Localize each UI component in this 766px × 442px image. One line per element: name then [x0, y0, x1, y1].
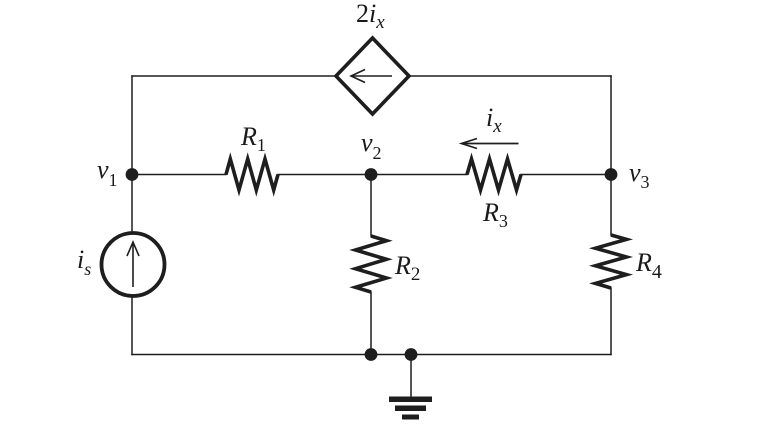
node junction at ground — [405, 348, 418, 361]
svg-text:v1: v1 — [97, 155, 118, 190]
node v2 — [365, 168, 378, 181]
svg-text:is: is — [77, 245, 91, 279]
svg-text:2ix: 2ix — [356, 0, 385, 33]
wire middle R1 to R3 — [278, 174, 467, 176]
resistor R4 — [596, 235, 627, 288]
wire top-left segment — [132, 75, 336, 77]
svg-text:R4: R4 — [635, 248, 662, 283]
wire ground stub — [410, 355, 412, 397]
wire middle R3 to v3 — [521, 174, 611, 176]
wire left upper (v1 to top) — [131, 76, 133, 232]
node junction at R2 bottom — [365, 348, 378, 361]
resistor R2 — [356, 236, 387, 292]
wire top-right segment — [409, 75, 611, 77]
resistor R1 — [226, 159, 278, 190]
svg-text:v3: v3 — [629, 158, 650, 192]
current source is (circle with up arrow) — [102, 233, 165, 296]
current arrow ix above R3 — [462, 139, 519, 149]
ground — [389, 397, 432, 420]
wire R2 to bottom rail — [370, 292, 372, 355]
svg-text:R1: R1 — [240, 122, 266, 155]
svg-text:R3: R3 — [482, 198, 508, 231]
wire right upper (top to v3) — [610, 76, 612, 235]
resistor R3 — [467, 159, 521, 190]
svg-text:v2: v2 — [361, 128, 382, 163]
svg-text:R2: R2 — [394, 251, 420, 285]
wire middle v1 to R1 — [132, 174, 226, 176]
node v3 — [605, 168, 618, 181]
wire left lower (is to bottom) — [131, 297, 133, 355]
wire right lower (R4 to bottom) — [610, 288, 612, 355]
wire v2 to R2 — [370, 175, 372, 237]
dependent current source 2ix (diamond) — [336, 38, 409, 114]
node v1 — [126, 168, 139, 181]
svg-text:ix: ix — [486, 103, 502, 137]
wire bottom rail — [132, 354, 611, 356]
